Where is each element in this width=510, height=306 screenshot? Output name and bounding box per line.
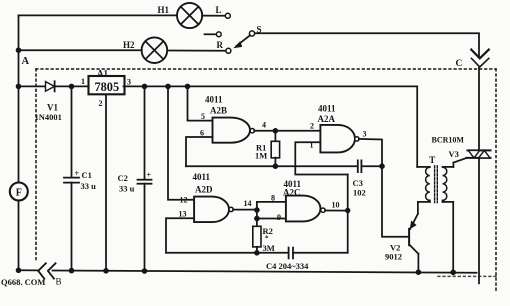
junction: R2 bottom on oscillator line xyxy=(254,250,260,256)
svg-text:9012: 9012 xyxy=(385,252,402,262)
svg-text:10: 10 xyxy=(332,201,340,210)
svg-text:H1: H1 xyxy=(158,5,170,15)
NAND gate A2D (4011) xyxy=(179,172,252,222)
svg-text:102: 102 xyxy=(353,188,366,198)
wire: A2D pin13 loop down to oscillator bottom line xyxy=(166,218,194,253)
voltage regulator U A1 7805 xyxy=(81,69,131,109)
resistor R2 3M xyxy=(253,219,275,254)
wire: A2D output pin14 to node xyxy=(233,209,257,211)
svg-text:4: 4 xyxy=(262,121,266,130)
junction: R1 bottom on feedback line xyxy=(273,163,279,169)
svg-text:BCR10M: BCR10M xyxy=(432,136,465,145)
svg-text:33 u: 33 u xyxy=(119,184,135,194)
wire: A2B output pin4 to A2A pin2 xyxy=(254,130,320,132)
svg-text:F: F xyxy=(16,188,22,199)
capacitor C4 204~334 xyxy=(266,248,348,271)
capacitor C1 33u xyxy=(64,86,96,271)
terminal L xyxy=(216,5,231,18)
svg-text:C4 204~334: C4 204~334 xyxy=(266,261,309,271)
wire: triac lower lead out of box xyxy=(478,158,480,283)
primary winding xyxy=(417,166,430,168)
svg-text:C: C xyxy=(456,59,463,69)
switch S pole and blade xyxy=(233,25,261,49)
lamp H2 xyxy=(123,37,167,63)
wire: H1 branch from bus to lamp xyxy=(19,14,178,16)
junction: C2 to bottom rail xyxy=(142,268,148,274)
wire: H2 branch from bus to lamp xyxy=(19,49,142,51)
diode V1 1N4001 xyxy=(35,81,62,122)
svg-text:V3: V3 xyxy=(449,149,459,159)
NAND gate A2C (4011) xyxy=(271,179,340,222)
svg-text:14: 14 xyxy=(244,199,252,208)
wire: left vertical bus from H1 line down to bottom rail xyxy=(18,16,20,183)
svg-text:+: + xyxy=(75,169,80,178)
svg-text:A2A: A2A xyxy=(318,114,336,124)
svg-text:1: 1 xyxy=(81,77,85,86)
wire: tap to A2C pin9 xyxy=(257,218,286,220)
capacitor C3 102 xyxy=(353,160,383,197)
svg-text:+: + xyxy=(147,171,152,180)
svg-text:3M: 3M xyxy=(263,243,275,253)
NAND gate A2A (4011) xyxy=(310,104,367,153)
svg-text:C3: C3 xyxy=(353,178,363,188)
svg-text:L: L xyxy=(216,5,222,15)
transformer T xyxy=(417,155,466,273)
svg-text:4011: 4011 xyxy=(205,95,223,105)
wire: feedback line to C3 xyxy=(186,165,357,167)
svg-text:C1: C1 xyxy=(82,170,92,180)
junction: rail / A2B pin5 riser xyxy=(185,84,191,90)
wire: +5V rail from 7805 pin3 to transformer corner xyxy=(124,86,418,166)
svg-text:3: 3 xyxy=(127,78,131,87)
wire: rail down to A2D pin12 xyxy=(168,86,194,199)
svg-text:8: 8 xyxy=(271,194,275,203)
wire: rail to diode xyxy=(19,85,46,87)
NAND gate A2B (4011) xyxy=(200,95,266,143)
junction: bus / main rail xyxy=(16,84,22,90)
svg-text:4011: 4011 xyxy=(318,104,336,114)
connector B (double chevron on bottom rail) xyxy=(38,263,61,286)
triac V3 BCR10M xyxy=(432,136,491,160)
dashed enclosure box xyxy=(36,69,496,291)
svg-text:H2: H2 xyxy=(123,40,135,50)
wire: node up to A2C pin8 xyxy=(257,202,286,210)
junction: V2 collector to bottom rail xyxy=(416,269,422,275)
wire: lamp H2 to terminal R xyxy=(167,50,225,52)
svg-text:4011: 4011 xyxy=(193,172,211,182)
wire: 7805 pin2 ground lead xyxy=(105,95,107,272)
junction: rail / A2D pin12 riser xyxy=(165,84,171,90)
junction: C1 to bottom rail xyxy=(69,268,75,274)
bottom rail xyxy=(19,269,38,271)
junction: bus to bottom rail xyxy=(16,268,22,274)
svg-text:7805: 7805 xyxy=(95,80,120,94)
resistor R1 1M xyxy=(255,131,280,166)
wire: A2C output riser (up to pin1 loop, down to C4 line) xyxy=(347,175,349,253)
wire: A2C output pin10 to riser xyxy=(325,210,348,212)
junction: C3 / A2A output node xyxy=(379,163,385,169)
wire: A2A output pin3 down to V2 base xyxy=(359,139,408,237)
svg-text:2: 2 xyxy=(310,122,314,131)
svg-text:3: 3 xyxy=(363,130,367,139)
wire: node down to pin9 tap xyxy=(256,210,258,219)
wire: rail down to A2B pin5 xyxy=(188,86,213,120)
junction: A2C output node xyxy=(345,208,350,213)
svg-text:9: 9 xyxy=(277,213,281,222)
transistor V2 9012 xyxy=(385,202,418,272)
svg-text:1M: 1M xyxy=(255,151,267,161)
svg-text:*: * xyxy=(265,235,269,243)
svg-text:12: 12 xyxy=(180,196,188,205)
terminal center-off with stub wire xyxy=(205,32,222,37)
core xyxy=(434,166,436,203)
svg-text:1N4001: 1N4001 xyxy=(35,112,62,122)
wire: diode to regulator input xyxy=(55,85,88,87)
secondary winding xyxy=(443,167,447,200)
svg-text:Q668. COM: Q668. COM xyxy=(1,277,45,287)
svg-text:V1: V1 xyxy=(47,103,58,113)
wire: A2B pin6 loop down to feedback line xyxy=(186,137,213,166)
connector C (double chevron) xyxy=(456,50,489,69)
wire: oscillator bottom line to C4 xyxy=(166,252,288,254)
junction: bus / H2 branch xyxy=(16,47,22,53)
wire: switch S to top-right corner xyxy=(255,33,479,57)
svg-text:A: A xyxy=(22,56,30,67)
svg-text:13: 13 xyxy=(179,210,187,219)
terminal R xyxy=(217,40,231,53)
svg-text:C2: C2 xyxy=(118,173,128,183)
junction: A2D output node xyxy=(254,207,260,213)
lamp H1 xyxy=(158,3,203,28)
svg-text:T: T xyxy=(429,155,435,165)
junction: C1 tap xyxy=(69,84,75,90)
wire: connector C down to triac xyxy=(478,68,480,151)
junction: R1 top tap xyxy=(273,128,279,134)
capacitor C2 33u xyxy=(118,86,152,271)
wire: A2A pin1 loop to A2C output xyxy=(295,142,347,174)
svg-text:R: R xyxy=(217,40,224,50)
junction: secondary to bottom rail xyxy=(450,270,456,276)
svg-text:A2B: A2B xyxy=(210,106,227,116)
junction: C2 top on rail xyxy=(142,84,148,90)
svg-text:A2D: A2D xyxy=(195,185,213,195)
svg-text:5: 5 xyxy=(201,112,205,121)
ammeter F (circle symbol on left bus) xyxy=(10,183,28,201)
svg-text:33 u: 33 u xyxy=(81,181,97,191)
junction: pin2 to bottom rail xyxy=(103,268,109,274)
svg-text:A1: A1 xyxy=(97,69,108,79)
wire: lamp H1 to terminal L xyxy=(202,15,225,17)
svg-text:2: 2 xyxy=(99,99,103,108)
svg-text:A2C: A2C xyxy=(283,187,301,197)
svg-text:B: B xyxy=(56,277,62,287)
junction: A2C pin9 / R2 tap xyxy=(254,216,260,222)
